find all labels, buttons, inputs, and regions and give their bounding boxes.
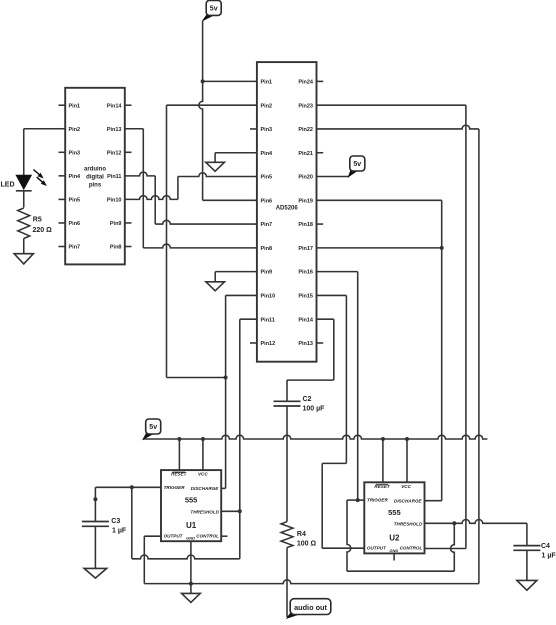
svg-text:TRIGGER: TRIGGER	[367, 497, 389, 502]
svg-text:Pin8: Pin8	[110, 245, 122, 251]
svg-text:Pin11: Pin11	[107, 174, 121, 180]
svg-text:555: 555	[388, 508, 401, 517]
svg-text:Pin7: Pin7	[261, 222, 273, 228]
svg-text:CONTROL: CONTROL	[400, 546, 423, 551]
svg-text:1 µF: 1 µF	[542, 553, 556, 560]
svg-text:GND: GND	[389, 548, 398, 553]
svg-text:VCC: VCC	[198, 472, 208, 477]
svg-text:Pin21: Pin21	[298, 151, 313, 157]
svg-text:OUTPUT: OUTPUT	[164, 533, 184, 538]
svg-text:audio out: audio out	[294, 603, 327, 612]
svg-text:Pin16: Pin16	[298, 270, 313, 276]
svg-text:Pin9: Pin9	[261, 270, 273, 276]
svg-text:Pin6: Pin6	[69, 221, 81, 227]
svg-text:Pin23: Pin23	[298, 103, 313, 109]
svg-text:Pin11: Pin11	[261, 317, 275, 323]
svg-text:5v: 5v	[353, 161, 361, 168]
svg-text:TRIGGER: TRIGGER	[164, 485, 186, 490]
svg-text:Pin4: Pin4	[69, 174, 82, 180]
svg-text:Pin22: Pin22	[298, 127, 313, 133]
svg-text:Pin14: Pin14	[298, 317, 314, 323]
svg-text:Pin1: Pin1	[261, 80, 273, 86]
svg-text:Pin10: Pin10	[107, 198, 122, 204]
svg-text:Pin18: Pin18	[298, 222, 313, 228]
svg-text:Pin20: Pin20	[298, 175, 313, 181]
svg-text:555: 555	[185, 496, 198, 505]
svg-text:Pin14: Pin14	[107, 103, 123, 109]
svg-text:Pin19: Pin19	[298, 198, 313, 204]
svg-text:GND: GND	[186, 536, 195, 541]
svg-text:1 µF: 1 µF	[112, 528, 127, 535]
svg-text:DISCHARGE: DISCHARGE	[191, 486, 220, 491]
svg-text:VCC: VCC	[401, 484, 411, 489]
svg-text:Pin15: Pin15	[298, 294, 313, 300]
svg-text:U2: U2	[389, 533, 400, 542]
svg-text:5v: 5v	[149, 424, 157, 431]
svg-text:Pin2: Pin2	[261, 103, 273, 109]
svg-text:Pin2: Pin2	[69, 127, 81, 133]
svg-text:Pin3: Pin3	[69, 150, 81, 156]
svg-text:Pin3: Pin3	[261, 127, 273, 133]
svg-text:THRESHOLD: THRESHOLD	[190, 510, 219, 515]
svg-text:Pin12: Pin12	[261, 341, 276, 347]
svg-text:Pin4: Pin4	[261, 151, 274, 157]
svg-text:U1: U1	[186, 521, 197, 530]
svg-text:THRESHOLD: THRESHOLD	[394, 522, 423, 527]
svg-text:Pin5: Pin5	[69, 198, 81, 204]
svg-text:DISCHARGE: DISCHARGE	[394, 498, 423, 503]
svg-text:Pin9: Pin9	[110, 221, 122, 227]
svg-text:R4: R4	[297, 531, 306, 538]
svg-text:digital: digital	[86, 174, 104, 180]
svg-text:OUTPUT: OUTPUT	[367, 546, 387, 551]
svg-text:Pin7: Pin7	[69, 245, 81, 251]
svg-text:Pin24: Pin24	[298, 80, 314, 86]
svg-text:Pin8: Pin8	[261, 246, 273, 252]
svg-text:R5: R5	[33, 217, 42, 224]
svg-text:AD5206: AD5206	[276, 206, 299, 212]
svg-text:pins: pins	[89, 182, 102, 188]
svg-text:C4: C4	[541, 543, 550, 550]
svg-text:Pin13: Pin13	[298, 341, 313, 347]
svg-text:arduino: arduino	[84, 166, 106, 172]
svg-text:5v: 5v	[210, 5, 218, 12]
svg-text:Pin5: Pin5	[261, 175, 273, 181]
svg-text:Pin6: Pin6	[261, 198, 273, 204]
svg-text:Pin13: Pin13	[107, 127, 122, 133]
svg-text:Pin1: Pin1	[69, 103, 81, 109]
svg-text:220 Ω: 220 Ω	[33, 227, 53, 234]
svg-text:Pin12: Pin12	[107, 150, 122, 156]
svg-text:100 µF: 100 µF	[303, 406, 326, 413]
svg-text:C2: C2	[303, 396, 312, 403]
svg-text:Pin17: Pin17	[298, 246, 313, 252]
svg-text:C3: C3	[111, 518, 120, 525]
svg-text:CONTROL: CONTROL	[196, 533, 219, 538]
svg-text:Pin10: Pin10	[261, 294, 276, 300]
svg-text:100 Ω: 100 Ω	[297, 541, 317, 548]
svg-text:LED: LED	[1, 182, 15, 189]
